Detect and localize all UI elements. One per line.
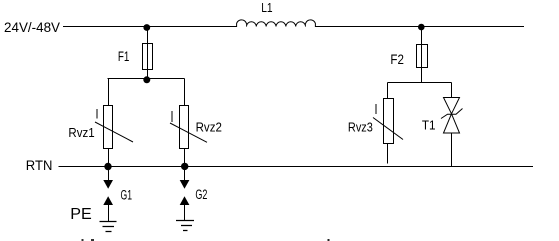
svg-text:G1: G1	[121, 188, 133, 203]
svg-text:Rvz3: Rvz3	[348, 120, 373, 135]
svg-text:Rvz2: Rvz2	[196, 120, 222, 135]
svg-text:T1: T1	[422, 118, 436, 133]
svg-text:L1: L1	[261, 1, 272, 15]
svg-text:G2: G2	[195, 187, 207, 202]
svg-text:24V/-48V: 24V/-48V	[4, 19, 61, 35]
svg-text:F1: F1	[118, 49, 129, 64]
svg-text:PE: PE	[70, 206, 92, 223]
svg-text:Rvz1: Rvz1	[68, 125, 94, 140]
svg-text:RTN: RTN	[26, 157, 53, 173]
svg-text:F2: F2	[390, 52, 404, 67]
